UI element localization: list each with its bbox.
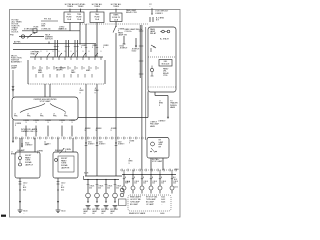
svg-text:REAR BODY HARN: REAR BODY HARN <box>129 212 146 215</box>
svg-text:LAMPS: LAMPS <box>56 69 63 72</box>
svg-text:STOP LAMP: STOP LAMP <box>152 160 163 163</box>
svg-text:DIMMING CELL 14: DIMMING CELL 14 <box>21 131 37 133</box>
svg-text:9: 9 <box>96 130 97 132</box>
svg-text:S420: S420 <box>99 142 103 144</box>
svg-text:DRL: DRL <box>67 14 71 16</box>
svg-text:650: 650 <box>23 189 26 191</box>
svg-text:STOP LAMP: STOP LAMP <box>40 100 52 103</box>
svg-text:BLOCK: BLOCK <box>12 32 19 34</box>
svg-text:RELAY: RELAY <box>150 32 157 35</box>
svg-text:A9 PNK: A9 PNK <box>14 40 21 43</box>
svg-text:B 9: B 9 <box>156 20 159 22</box>
svg-text:LAMP RH: LAMP RH <box>61 166 70 169</box>
svg-text:RH LAMP: RH LAMP <box>55 149 64 152</box>
svg-text:9: 9 <box>15 125 16 127</box>
svg-text:S408: S408 <box>84 173 88 175</box>
svg-text:450: 450 <box>107 188 110 190</box>
svg-text:HEAD: HEAD <box>31 52 37 55</box>
svg-text:9: 9 <box>103 47 104 49</box>
svg-text:9: 9 <box>159 105 160 107</box>
svg-text:C2: C2 <box>44 142 46 144</box>
svg-text:3 ORN 640: 3 ORN 640 <box>24 28 33 30</box>
svg-text:.8 BRN: .8 BRN <box>129 141 135 143</box>
svg-text:9: 9 <box>80 92 81 94</box>
svg-text:.8 BRN: .8 BRN <box>92 45 98 47</box>
svg-text:550: 550 <box>134 183 137 185</box>
svg-text:450: 450 <box>116 188 119 190</box>
svg-text:550: 550 <box>143 183 146 185</box>
svg-text:.8 BRN 9: .8 BRN 9 <box>25 145 32 147</box>
svg-text:9: 9 <box>72 122 73 124</box>
svg-text:550: 550 <box>173 183 176 185</box>
svg-text:9: 9 <box>36 122 37 124</box>
svg-text:550: 550 <box>152 183 155 185</box>
svg-text:.8 BRN 9: .8 BRN 9 <box>99 144 106 146</box>
svg-text:OFF: OFF <box>71 70 74 72</box>
svg-text:LAMP LH: LAMP LH <box>25 163 34 166</box>
svg-text:G200: G200 <box>132 51 137 53</box>
svg-text:.8 BRN: .8 BRN <box>103 45 109 47</box>
svg-text:FUSE: FUSE <box>76 17 82 19</box>
svg-text:.8 BRN 9: .8 BRN 9 <box>88 144 95 146</box>
svg-text:TIMES: TIMES <box>67 6 74 8</box>
svg-text:.8 BLK: .8 BLK <box>125 182 131 184</box>
svg-text:650: 650 <box>61 189 64 191</box>
svg-text:B: B <box>134 177 135 179</box>
svg-text:.8 ORN 240: .8 ORN 240 <box>41 28 51 30</box>
svg-text:9: 9 <box>111 130 112 132</box>
svg-text:TRN: TRN <box>77 14 82 16</box>
svg-text:SWITCH: SWITCH <box>45 39 53 41</box>
svg-text:.8 BRN 9: .8 BRN 9 <box>120 48 128 50</box>
svg-text:G104: G104 <box>61 211 65 213</box>
svg-text:.8 BRN 9: .8 BRN 9 <box>118 144 125 146</box>
svg-text:PPL 916: PPL 916 <box>44 19 51 21</box>
svg-text:450: 450 <box>89 188 92 190</box>
svg-text:C410: C410 <box>174 187 178 189</box>
svg-text:9: 9 <box>26 122 27 124</box>
svg-text:B+ 87A 87: B+ 87A 87 <box>160 38 169 41</box>
svg-text:.8 BRN 9: .8 BRN 9 <box>155 13 163 15</box>
svg-text:BRN 9: BRN 9 <box>11 154 16 156</box>
svg-text:GRN: GRN <box>41 26 46 28</box>
svg-text:9: 9 <box>129 163 130 165</box>
svg-text:9: 9 <box>85 130 86 132</box>
svg-text:9: 9 <box>81 47 82 49</box>
svg-text:LAMP: LAMP <box>11 67 17 70</box>
svg-text:FUSE: FUSE <box>66 17 72 19</box>
svg-text:S422: S422 <box>118 142 122 144</box>
svg-text:HARN: HARN <box>150 125 156 128</box>
svg-text:B: B <box>125 177 126 179</box>
svg-text:9: 9 <box>95 92 96 94</box>
svg-text:ASSEMBLY: ASSEMBLY <box>11 61 22 64</box>
svg-text:9: 9 <box>129 143 130 145</box>
svg-text:B: B <box>161 177 162 179</box>
svg-text:G400: G400 <box>160 213 164 215</box>
svg-text:B/U LAMP: B/U LAMP <box>130 203 139 206</box>
svg-text:FUSE: FUSE <box>34 26 40 28</box>
svg-text:RELAY CTRL: RELAY CTRL <box>126 11 137 14</box>
svg-text:COIL B+: COIL B+ <box>125 31 133 33</box>
svg-text:9: 9 <box>62 122 63 124</box>
svg-text:550: 550 <box>161 183 164 185</box>
svg-text:9: 9 <box>48 122 49 124</box>
svg-text:LH LAMP: LH LAMP <box>17 149 25 152</box>
svg-text:TIMES: TIMES <box>113 6 120 8</box>
svg-text:9: 9 <box>92 47 93 49</box>
svg-text:CTRL: CTRL <box>163 75 168 77</box>
svg-text:B: B <box>152 177 153 179</box>
svg-text:S421: S421 <box>88 142 92 144</box>
svg-text:30: 30 <box>153 47 155 49</box>
svg-text:LIC LAMP: LIC LAMP <box>146 203 155 206</box>
svg-text:.8 BRN: .8 BRN <box>81 45 87 47</box>
svg-text:.8 ORN 40: .8 ORN 40 <box>58 28 67 30</box>
svg-text:TIMES: TIMES <box>94 6 101 8</box>
svg-text:HARN: HARN <box>170 106 176 109</box>
svg-text:TIMES: TIMES <box>78 6 85 8</box>
svg-text:.8 BRN 9: .8 BRN 9 <box>158 121 165 123</box>
svg-text:TAIL: TAIL <box>95 13 99 16</box>
svg-text:MODULE: MODULE <box>162 64 170 66</box>
svg-text:LAMP SW: LAMP SW <box>118 34 127 37</box>
svg-text:450: 450 <box>98 188 101 190</box>
svg-text:B: B <box>143 177 144 179</box>
svg-text:FUSE: FUSE <box>94 17 100 19</box>
svg-text:9: 9 <box>37 153 38 155</box>
